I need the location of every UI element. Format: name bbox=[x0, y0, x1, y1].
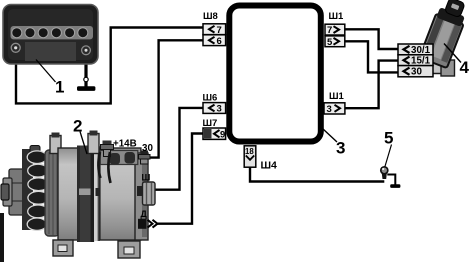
svg-text:+14В: +14В bbox=[113, 138, 137, 149]
svg-text:Ш7: Ш7 bbox=[203, 118, 218, 129]
svg-text:7: 7 bbox=[217, 25, 222, 36]
svg-text:30/1: 30/1 bbox=[411, 45, 431, 56]
svg-text:Ш4: Ш4 bbox=[261, 160, 278, 172]
svg-text:5: 5 bbox=[327, 37, 333, 48]
svg-text:18: 18 bbox=[245, 147, 254, 156]
svg-text:30: 30 bbox=[411, 67, 422, 78]
svg-text:5: 5 bbox=[384, 129, 393, 148]
svg-text:Ш6: Ш6 bbox=[203, 93, 218, 104]
svg-text:Ш1: Ш1 bbox=[329, 91, 345, 102]
svg-text:Ш: Ш bbox=[142, 173, 151, 183]
svg-text:3: 3 bbox=[336, 139, 345, 158]
svg-text:30: 30 bbox=[142, 143, 153, 154]
svg-text:3: 3 bbox=[327, 104, 332, 115]
svg-text:9: 9 bbox=[220, 130, 225, 141]
svg-text:3: 3 bbox=[217, 104, 222, 115]
svg-text:Ш8: Ш8 bbox=[203, 11, 218, 22]
svg-text:Ш1: Ш1 bbox=[329, 11, 345, 22]
svg-text:4: 4 bbox=[460, 58, 470, 77]
svg-text:2: 2 bbox=[73, 117, 82, 136]
svg-text:Д: Д bbox=[141, 209, 148, 219]
svg-text:7: 7 bbox=[327, 25, 332, 36]
svg-text:6: 6 bbox=[217, 36, 222, 47]
svg-text:1: 1 bbox=[55, 78, 64, 97]
svg-text:15/1: 15/1 bbox=[411, 56, 431, 67]
